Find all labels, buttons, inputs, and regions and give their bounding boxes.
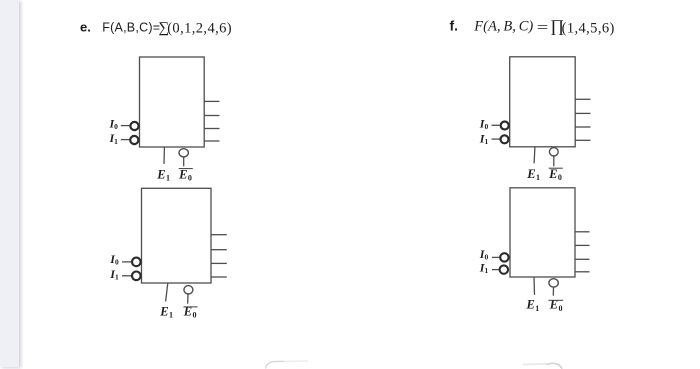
wire output line 2 of box 1 [204, 115, 219, 117]
svg-text:I0: I0 [479, 117, 489, 132]
input bubble I1 of box 2 [132, 272, 141, 281]
wire E0 stem of box 1 [183, 157, 185, 166]
app background strip [0, 0, 19, 367]
wire E0 stem of box 3 [553, 156, 555, 166]
wire I1 lead of box 1 [121, 139, 130, 141]
wire output line 3 of box 1 [204, 128, 219, 130]
svg-text:=: = [537, 20, 549, 37]
wire output line 2 of box 3 [575, 112, 590, 114]
svg-text:I0: I0 [479, 247, 489, 262]
enable bubble E0 of box 3 [549, 148, 558, 156]
svg-text:E0: E0 [178, 167, 192, 182]
svg-text:E1: E1 [526, 298, 540, 313]
enable bubble E0 of box 2 [184, 286, 193, 294]
input bubble I1 of box 4 [500, 265, 508, 273]
wire output line 3 of box 4 [575, 258, 590, 260]
wire I1 lead of box 3 [492, 138, 500, 140]
wire I0 lead of box 2 [122, 261, 131, 263]
svg-text:I0: I0 [109, 252, 119, 267]
wire output line 3 of box 3 [575, 126, 590, 128]
decoder box 1 (problem e, upper decoder) [140, 57, 205, 147]
decoder box 2 (problem e, lower decoder) [142, 188, 212, 283]
wire output line 4 of box 4 [575, 271, 590, 273]
wire output line 3 of box 2 [211, 262, 227, 264]
svg-text:(1,4,5,6): (1,4,5,6) [562, 20, 615, 36]
input bubble I1 of box 1 [130, 136, 138, 144]
wire output line 1 of box 1 [204, 100, 219, 102]
faint cropped sketch tail, bottom left [284, 360, 308, 362]
svg-text:I1: I1 [109, 267, 119, 282]
enable pin E1 of box 1 [163, 147, 165, 164]
wire I1 lead of box 2 [122, 275, 131, 277]
enable pin E1 of box 3 [533, 147, 536, 164]
svg-text:f.: f. [450, 17, 459, 33]
enable pin E1 of box 4 [533, 277, 536, 295]
wire E0 stem of box 4 [552, 287, 554, 295]
overbar of E0 label box 1 [179, 168, 193, 170]
svg-text:E1: E1 [156, 167, 170, 182]
wire output line 4 of box 2 [211, 276, 227, 278]
svg-text:F(A, B, C): F(A, B, C) [473, 18, 533, 34]
wire I0 lead of box 3 [492, 124, 500, 126]
svg-text:e.: e. [80, 20, 91, 35]
wire output line 1 of box 4 [575, 231, 590, 233]
wire output line 2 of box 2 [211, 249, 227, 251]
enable pin E1 of box 2 [166, 283, 168, 301]
svg-text:F(A,B,C)=: F(A,B,C)= [102, 21, 160, 35]
input bubble I0 of box 3 [501, 122, 509, 130]
faint cropped smudge, bottom middle-right [523, 363, 547, 366]
wire output line 1 of box 3 [575, 98, 590, 100]
overbar of E0 label box 2 [183, 306, 197, 308]
input bubble I0 of box 2 [132, 258, 141, 267]
wire I0 lead of box 4 [492, 256, 500, 258]
input bubble I0 of box 4 [500, 253, 508, 261]
svg-text:E1: E1 [159, 304, 173, 319]
wire output line 2 of box 4 [575, 244, 590, 246]
wire I1 lead of box 4 [492, 269, 500, 271]
faint cropped sketch, bottom right [547, 363, 563, 368]
decoder box 4 (problem f, lower decoder) [510, 188, 575, 277]
enable bubble E0 of box 1 [179, 149, 188, 157]
svg-text:I1: I1 [109, 131, 119, 146]
svg-text:(0,1,2,4,6): (0,1,2,4,6) [167, 20, 232, 36]
svg-text:E0: E0 [548, 167, 562, 182]
overbar of E0 label box 3 [549, 167, 563, 169]
svg-text:I0: I0 [109, 116, 119, 131]
wire output line 4 of box 3 [575, 139, 590, 141]
svg-text:E1: E1 [526, 167, 540, 182]
input bubble I1 of box 3 [501, 135, 509, 143]
enable bubble E0 of box 4 [549, 279, 558, 287]
overbar of E0 label box 4 [549, 299, 564, 301]
svg-text:I1: I1 [479, 261, 489, 276]
wire I0 lead of box 1 [121, 125, 130, 127]
input bubble I0 of box 1 [130, 122, 138, 130]
faint cropped sketch, bottom left [266, 361, 285, 368]
svg-text:I1: I1 [479, 131, 489, 146]
wire output line 1 of box 2 [211, 234, 227, 236]
decoder box 3 (problem f, upper decoder) [510, 57, 576, 147]
wire output line 4 of box 1 [204, 140, 219, 142]
wire E0 stem of box 2 [187, 294, 189, 303]
